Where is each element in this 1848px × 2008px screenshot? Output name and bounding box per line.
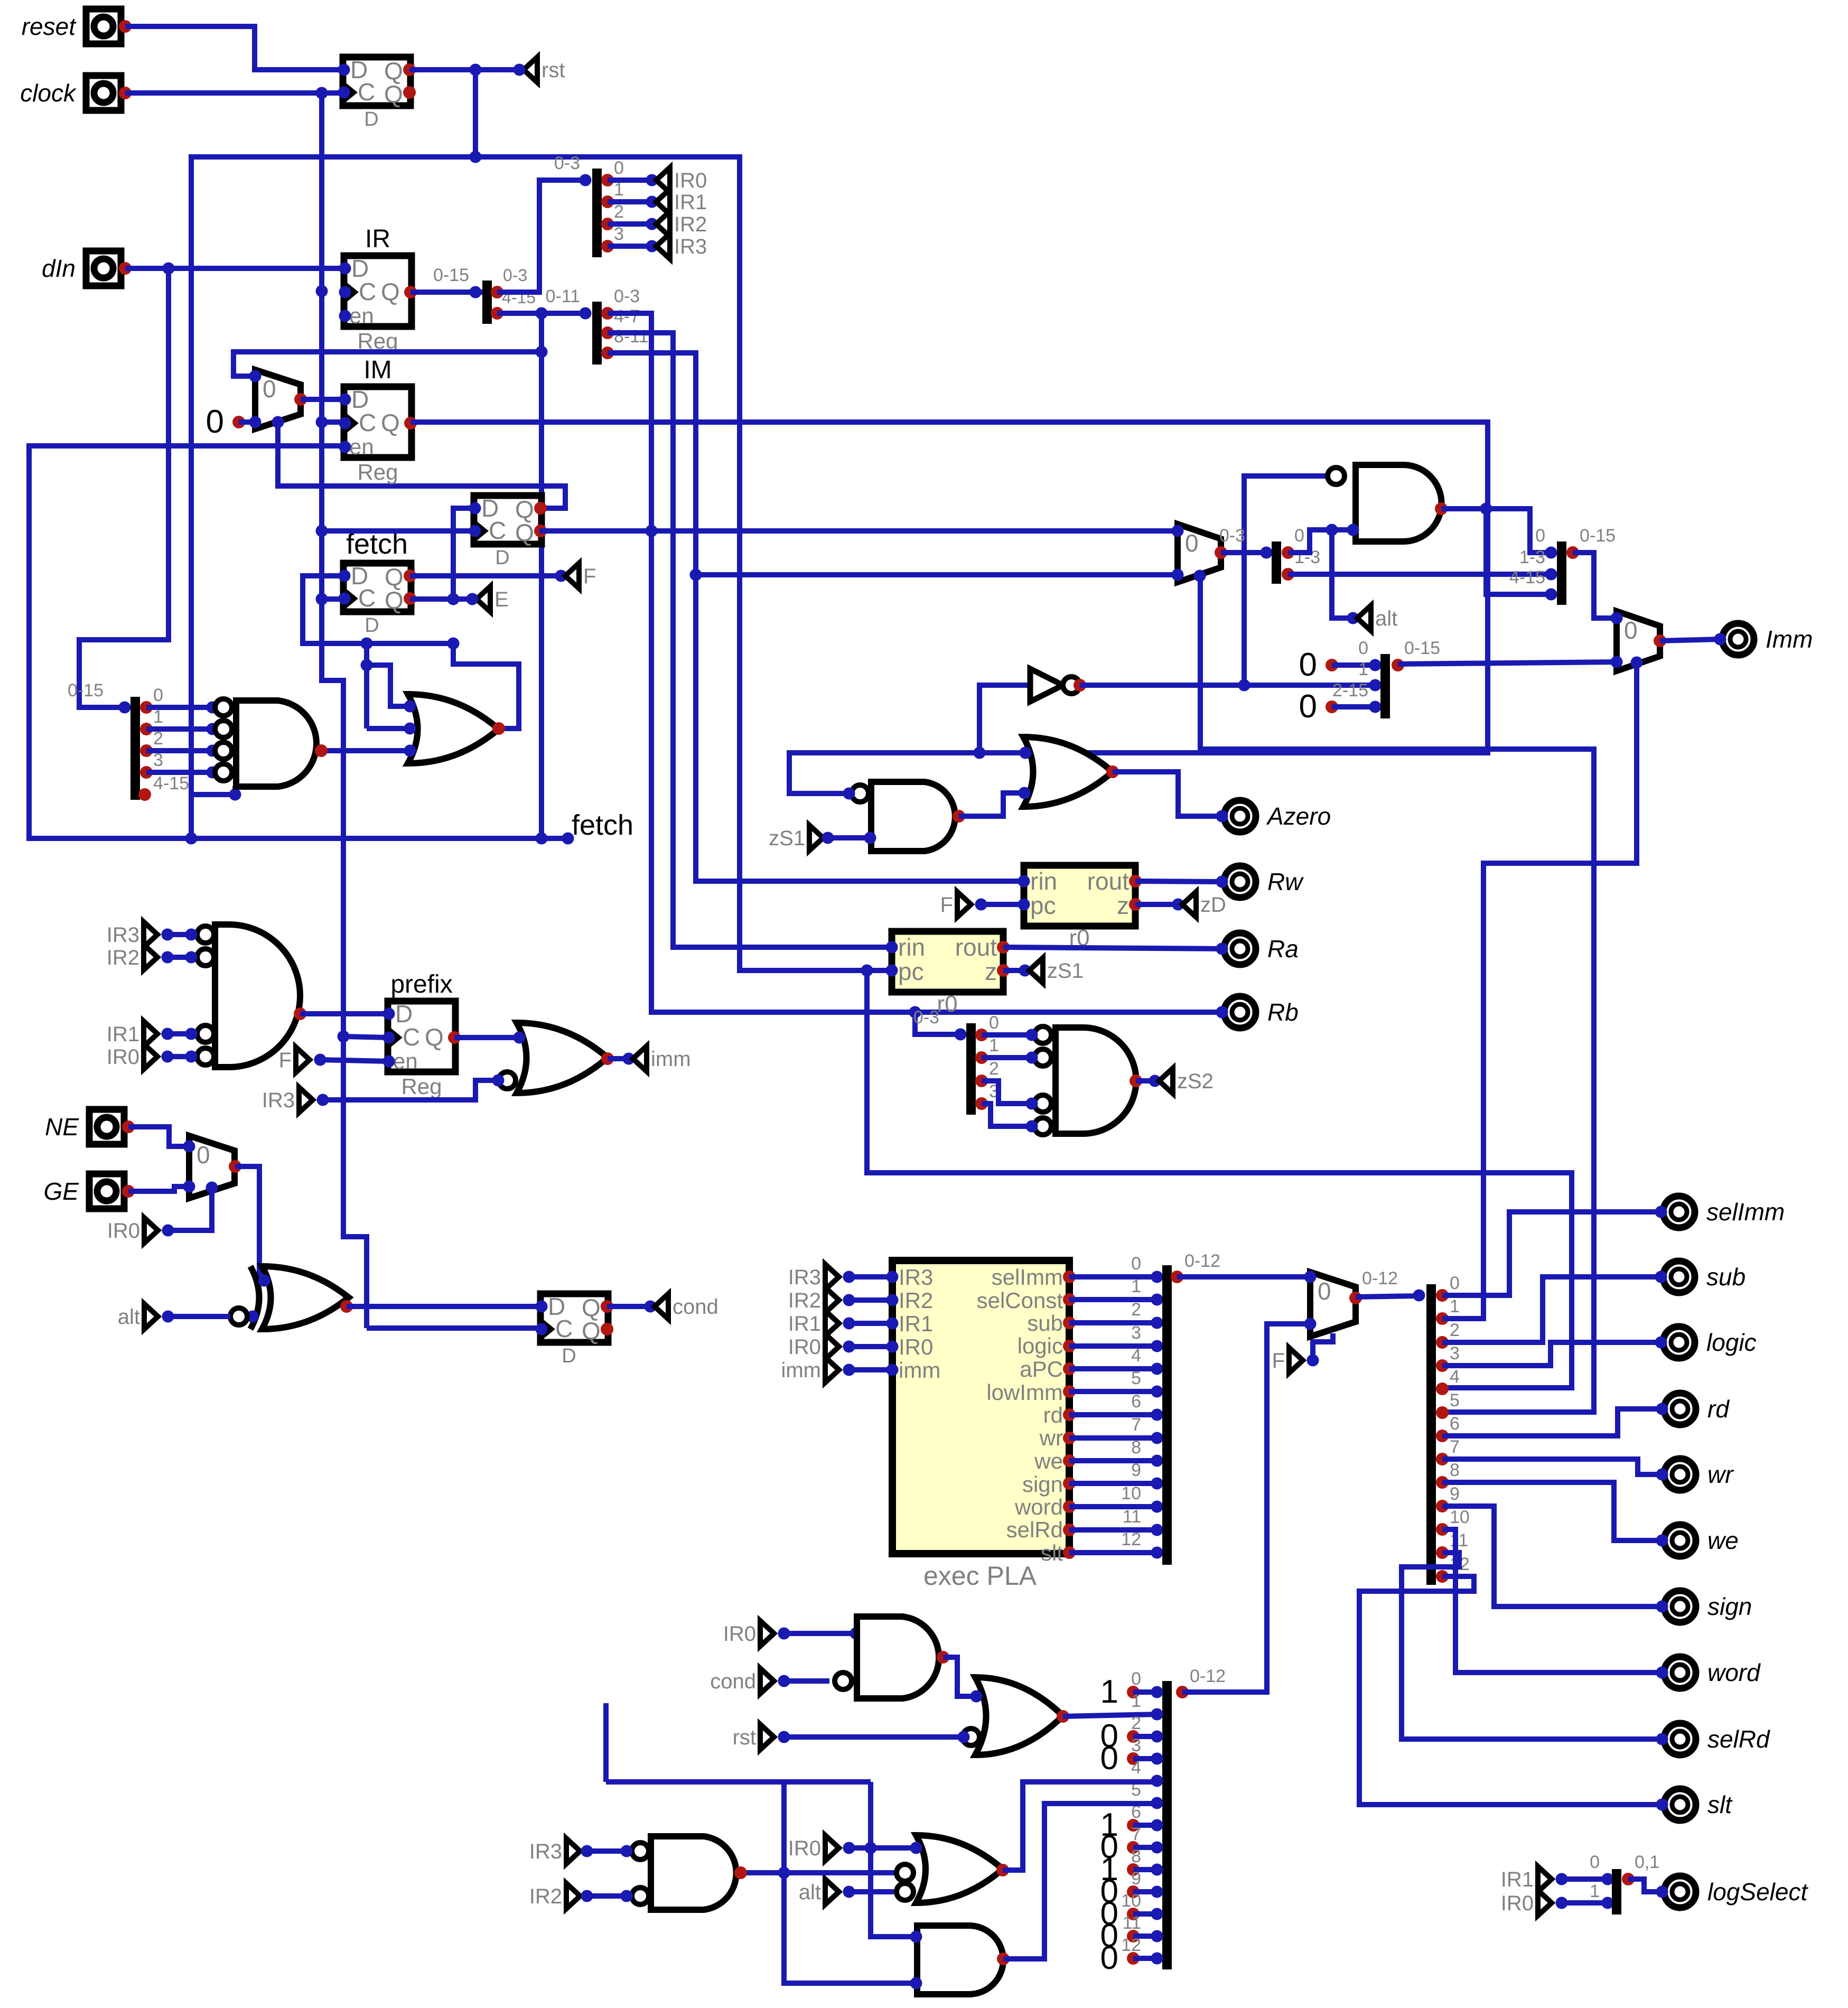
svg-text:IR3: IR3: [107, 923, 139, 947]
svg-text:0: 0: [1299, 688, 1317, 725]
svg-text:9: 9: [1131, 1460, 1141, 1480]
svg-text:1: 1: [1131, 1276, 1141, 1296]
svg-text:pc: pc: [1030, 892, 1056, 919]
svg-text:z: z: [985, 958, 997, 985]
svg-text:1: 1: [614, 180, 624, 200]
svg-text:0-12: 0-12: [1190, 1666, 1226, 1686]
svg-text:selConst: selConst: [977, 1288, 1063, 1313]
svg-text:sub: sub: [1706, 1263, 1746, 1291]
svg-text:IR0: IR0: [788, 1837, 821, 1860]
svg-text:imm: imm: [781, 1359, 821, 1382]
svg-text:logic: logic: [1706, 1329, 1757, 1356]
svg-text:alt: alt: [118, 1305, 140, 1329]
svg-text:0-15: 0-15: [1580, 526, 1616, 546]
svg-text:10: 10: [1450, 1507, 1470, 1527]
svg-text:reset: reset: [22, 13, 77, 40]
svg-text:8: 8: [1450, 1460, 1460, 1480]
svg-text:1: 1: [1358, 659, 1368, 679]
svg-text:IR0: IR0: [723, 1622, 756, 1646]
svg-text:4-7: 4-7: [614, 306, 640, 326]
svg-text:0: 0: [206, 404, 224, 440]
svg-text:pc: pc: [898, 958, 924, 985]
svg-text:1: 1: [1100, 1674, 1118, 1710]
svg-text:word: word: [1707, 1659, 1761, 1686]
svg-text:0-12: 0-12: [1184, 1251, 1220, 1271]
svg-text:wr: wr: [1039, 1425, 1063, 1450]
svg-text:1: 1: [153, 707, 163, 727]
svg-text:Rw: Rw: [1267, 868, 1304, 895]
svg-text:0: 0: [1100, 1740, 1118, 1777]
svg-text:we: we: [1707, 1527, 1739, 1554]
svg-text:3: 3: [1131, 1323, 1141, 1343]
svg-text:zS2: zS2: [1177, 1070, 1214, 1093]
svg-text:prefix: prefix: [390, 970, 452, 998]
svg-text:logSelect: logSelect: [1707, 1878, 1808, 1906]
svg-text:alt: alt: [1375, 607, 1397, 630]
svg-text:selImm: selImm: [1706, 1198, 1785, 1226]
svg-text:Q: Q: [385, 586, 404, 614]
svg-text:Q: Q: [582, 1317, 601, 1344]
svg-text:0: 0: [153, 685, 163, 705]
svg-text:rin: rin: [1030, 867, 1057, 895]
svg-text:wr: wr: [1707, 1461, 1734, 1488]
svg-text:10: 10: [1121, 1483, 1141, 1503]
svg-text:6: 6: [1450, 1414, 1460, 1434]
svg-text:cond: cond: [673, 1295, 718, 1319]
svg-text:IR2: IR2: [674, 213, 707, 236]
svg-text:IR2: IR2: [788, 1289, 821, 1312]
svg-text:rd: rd: [1043, 1403, 1063, 1427]
svg-text:exec PLA: exec PLA: [923, 1561, 1037, 1591]
svg-text:rst: rst: [542, 59, 565, 82]
svg-text:GE: GE: [44, 1178, 80, 1205]
svg-text:0-3: 0-3: [913, 1007, 939, 1028]
svg-text:12: 12: [1121, 1935, 1141, 1955]
svg-text:0: 0: [1131, 1254, 1141, 1274]
svg-text:Reg: Reg: [357, 460, 398, 484]
svg-text:IR1: IR1: [1501, 1868, 1534, 1891]
svg-text:11: 11: [1450, 1530, 1468, 1551]
svg-text:1: 1: [989, 1035, 999, 1056]
svg-text:2: 2: [1131, 1300, 1141, 1320]
svg-text:3: 3: [614, 224, 624, 244]
svg-text:slt: slt: [1707, 1791, 1733, 1818]
svg-text:sign: sign: [1707, 1593, 1752, 1620]
svg-text:0-11: 0-11: [545, 286, 580, 306]
svg-text:dIn: dIn: [42, 255, 76, 282]
svg-text:IR1: IR1: [788, 1312, 821, 1335]
svg-text:NE: NE: [45, 1113, 79, 1141]
svg-text:10: 10: [1121, 1891, 1141, 1911]
svg-text:8: 8: [1131, 1437, 1141, 1458]
svg-text:0-15: 0-15: [1404, 638, 1440, 658]
svg-text:0,1: 0,1: [1635, 1852, 1659, 1872]
svg-text:0-3: 0-3: [503, 266, 527, 285]
svg-text:0: 0: [263, 375, 276, 403]
svg-text:r0: r0: [937, 991, 957, 1017]
svg-text:IR0: IR0: [1501, 1892, 1534, 1915]
svg-text:1-3: 1-3: [1519, 547, 1545, 567]
svg-text:0: 0: [1185, 529, 1199, 557]
svg-text:IR3: IR3: [529, 1840, 562, 1863]
svg-text:0: 0: [1535, 526, 1545, 546]
svg-text:1: 1: [1590, 1881, 1600, 1901]
svg-text:IR0: IR0: [107, 1219, 140, 1243]
svg-text:4: 4: [1450, 1367, 1460, 1387]
svg-text:cond: cond: [710, 1670, 756, 1693]
svg-text:Ra: Ra: [1267, 935, 1299, 963]
svg-text:Rb: Rb: [1267, 998, 1299, 1026]
svg-text:IR2: IR2: [107, 946, 139, 969]
svg-text:rd: rd: [1707, 1395, 1730, 1423]
svg-text:0: 0: [1299, 647, 1317, 683]
svg-text:rout: rout: [1087, 867, 1129, 895]
svg-text:Imm: Imm: [1766, 625, 1813, 653]
svg-text:imm: imm: [651, 1048, 691, 1071]
svg-text:zD: zD: [1200, 893, 1226, 917]
svg-text:sign: sign: [1022, 1472, 1063, 1497]
svg-text:IR0: IR0: [674, 169, 707, 192]
svg-text:rin: rin: [898, 933, 925, 961]
svg-text:2-15: 2-15: [1332, 680, 1368, 701]
svg-text:0: 0: [1294, 526, 1304, 546]
svg-text:Q: Q: [384, 80, 403, 108]
svg-text:lowImm: lowImm: [986, 1380, 1063, 1405]
svg-text:F: F: [1272, 1349, 1285, 1372]
svg-text:Azero: Azero: [1266, 802, 1331, 830]
svg-text:D: D: [562, 1345, 576, 1367]
svg-text:IR3: IR3: [899, 1265, 933, 1290]
svg-text:0-3: 0-3: [1219, 526, 1245, 546]
svg-text:4: 4: [1131, 1346, 1141, 1366]
svg-text:12: 12: [1121, 1529, 1141, 1549]
svg-text:0: 0: [1318, 1277, 1331, 1305]
svg-text:0: 0: [614, 158, 624, 178]
svg-text:0-3: 0-3: [614, 286, 640, 306]
svg-text:zS1: zS1: [1047, 959, 1084, 983]
svg-text:0-12: 0-12: [1362, 1268, 1398, 1288]
svg-text:0: 0: [1450, 1273, 1460, 1293]
svg-text:7: 7: [1450, 1437, 1460, 1457]
svg-text:selRd: selRd: [1006, 1517, 1063, 1542]
svg-text:IR3: IR3: [262, 1089, 295, 1112]
svg-text:11: 11: [1123, 1507, 1141, 1527]
svg-text:selImm: selImm: [992, 1265, 1063, 1290]
svg-text:Q: Q: [515, 519, 534, 546]
svg-text:5: 5: [1450, 1390, 1460, 1411]
svg-text:0-15: 0-15: [433, 265, 469, 285]
svg-text:C: C: [358, 78, 375, 106]
svg-text:E: E: [494, 588, 509, 611]
svg-text:1: 1: [1450, 1296, 1460, 1316]
svg-text:8-11: 8-11: [614, 326, 649, 347]
svg-text:0-15: 0-15: [68, 680, 104, 701]
svg-text:IR3: IR3: [674, 235, 707, 258]
svg-text:Q: Q: [381, 409, 400, 436]
svg-text:C: C: [359, 409, 376, 436]
svg-text:0: 0: [989, 1013, 999, 1033]
svg-text:alt: alt: [799, 1881, 821, 1904]
svg-text:en: en: [349, 434, 374, 459]
svg-text:0: 0: [1590, 1852, 1600, 1872]
svg-text:word: word: [1014, 1495, 1063, 1519]
svg-text:logic: logic: [1018, 1333, 1063, 1358]
svg-text:clock: clock: [20, 79, 77, 107]
svg-text:IR: IR: [365, 225, 390, 253]
svg-text:sub: sub: [1027, 1311, 1063, 1335]
svg-text:en: en: [393, 1049, 418, 1073]
svg-text:3: 3: [153, 750, 163, 770]
svg-text:Q: Q: [425, 1023, 444, 1051]
svg-text:C: C: [358, 584, 376, 612]
svg-text:IR1: IR1: [107, 1023, 139, 1046]
svg-text:7: 7: [1131, 1415, 1141, 1435]
svg-text:4-15: 4-15: [153, 773, 189, 793]
svg-text:fetch: fetch: [572, 809, 633, 841]
svg-text:en: en: [349, 303, 374, 328]
svg-text:imm: imm: [899, 1358, 940, 1383]
svg-text:IR3: IR3: [788, 1266, 821, 1289]
svg-text:D: D: [495, 547, 509, 569]
svg-text:0: 0: [1100, 1940, 1118, 1976]
svg-text:4-15: 4-15: [1509, 567, 1545, 587]
svg-text:3: 3: [1450, 1343, 1460, 1363]
svg-text:C: C: [489, 517, 506, 544]
svg-text:0-3: 0-3: [554, 153, 580, 173]
svg-text:aPC: aPC: [1020, 1357, 1063, 1381]
svg-text:5: 5: [1131, 1368, 1141, 1388]
svg-text:rout: rout: [955, 933, 997, 961]
svg-text:2: 2: [614, 202, 624, 222]
svg-text:C: C: [359, 278, 376, 305]
svg-text:1: 1: [1131, 1691, 1141, 1711]
svg-text:2: 2: [153, 729, 163, 749]
svg-text:C: C: [403, 1023, 420, 1051]
svg-text:Reg: Reg: [401, 1074, 442, 1099]
svg-text:0: 0: [1624, 617, 1638, 644]
svg-text:IR2: IR2: [529, 1885, 562, 1908]
svg-text:we: we: [1034, 1449, 1063, 1473]
svg-text:IM: IM: [363, 356, 391, 384]
svg-text:F: F: [583, 565, 596, 588]
svg-text:IR1: IR1: [899, 1311, 933, 1336]
svg-text:0: 0: [1358, 638, 1368, 658]
svg-text:D: D: [364, 108, 378, 130]
svg-text:slt: slt: [1041, 1540, 1063, 1565]
svg-text:C: C: [555, 1315, 573, 1342]
svg-text:IR1: IR1: [674, 191, 707, 214]
svg-text:rst: rst: [733, 1726, 756, 1749]
svg-text:9: 9: [1450, 1484, 1460, 1504]
svg-text:F: F: [279, 1049, 292, 1072]
svg-text:z: z: [1117, 892, 1129, 919]
svg-text:0: 0: [197, 1141, 210, 1169]
svg-text:2: 2: [989, 1059, 999, 1079]
svg-text:IR0: IR0: [788, 1335, 821, 1359]
svg-text:4: 4: [1131, 1758, 1141, 1778]
svg-text:Q: Q: [381, 278, 400, 305]
svg-text:F: F: [940, 893, 953, 917]
svg-text:6: 6: [1131, 1391, 1141, 1412]
svg-text:2: 2: [1450, 1320, 1460, 1340]
svg-text:D: D: [365, 614, 379, 637]
svg-text:IR0: IR0: [899, 1334, 933, 1359]
svg-text:IR2: IR2: [899, 1288, 933, 1313]
svg-text:IR0: IR0: [107, 1045, 139, 1069]
svg-text:zS1: zS1: [769, 827, 805, 850]
svg-text:selRd: selRd: [1707, 1725, 1770, 1753]
